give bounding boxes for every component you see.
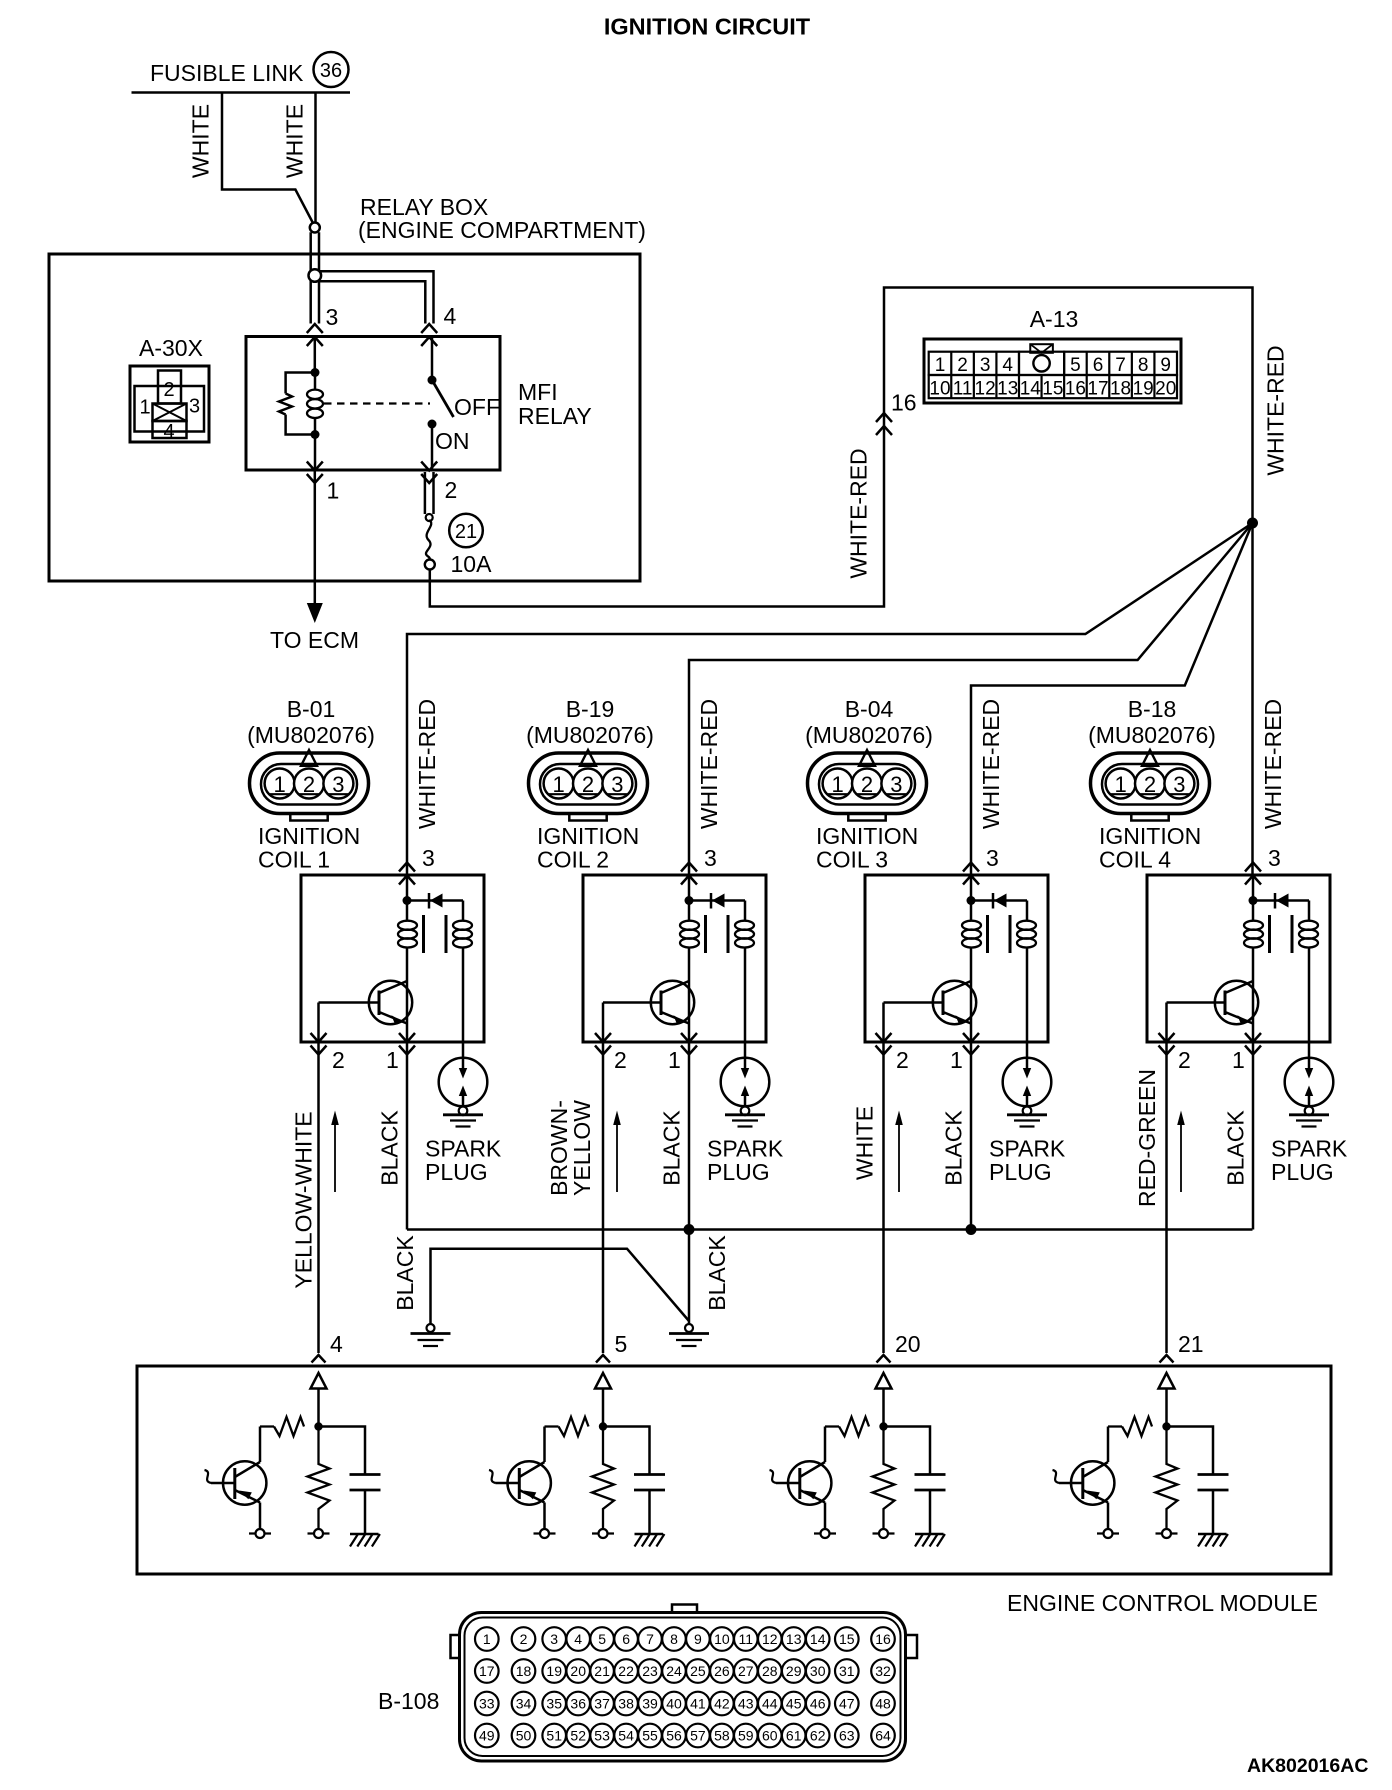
WHITE-RED distribution junction xyxy=(1247,518,1258,529)
connector B-108 pins 1-64 xyxy=(475,1627,895,1747)
ECM pin arrow coil 1 xyxy=(312,1355,326,1363)
coil 1 primary junction xyxy=(403,896,412,905)
ECM driver 4 capacitor ground wire xyxy=(1212,1490,1215,1534)
svg-text:16: 16 xyxy=(891,390,917,416)
ECM pin arrow coil 3 xyxy=(877,1355,891,1363)
ECM driver 2 emitter wire xyxy=(543,1503,546,1530)
connector A-13 outline xyxy=(924,339,1181,403)
svg-text:2: 2 xyxy=(582,772,594,797)
svg-text:50: 50 xyxy=(516,1728,532,1744)
svg-text:9: 9 xyxy=(1160,355,1171,376)
svg-text:WHITE-RED: WHITE-RED xyxy=(1260,699,1286,829)
svg-text:11: 11 xyxy=(953,378,973,399)
relay internal resistor xyxy=(279,394,292,415)
ignition coil 2 primary winding xyxy=(680,905,699,981)
svg-text:(MU802076): (MU802076) xyxy=(805,722,933,748)
svg-text:38: 38 xyxy=(618,1696,634,1712)
svg-text:1: 1 xyxy=(935,355,946,376)
svg-text:8: 8 xyxy=(1138,355,1149,376)
connector B-19 bottom tab xyxy=(569,814,606,821)
connector B-01 outer shell xyxy=(250,753,369,814)
svg-text:58: 58 xyxy=(714,1728,730,1744)
svg-text:2: 2 xyxy=(520,1631,528,1647)
wire BLACK coil 3 emitter xyxy=(970,1042,973,1230)
ignition coil 4 core xyxy=(1270,915,1293,953)
ECM driver 3 capacitor branch wire xyxy=(884,1427,931,1475)
coil 2 power transistor xyxy=(603,981,694,1024)
coil 4 pin 1 arrows xyxy=(1245,1033,1261,1055)
svg-text:27: 27 xyxy=(738,1663,754,1679)
connector B-108 outer shell xyxy=(460,1613,906,1762)
connector A-13 top row pin labels xyxy=(935,355,1171,376)
spark plug 4 xyxy=(1285,1058,1334,1107)
connector B-19 pins 1 2 3 xyxy=(544,769,633,799)
coil 4 primary junction xyxy=(1249,896,1258,905)
ECM pin arrow coil 2 xyxy=(596,1355,610,1363)
svg-text:56: 56 xyxy=(666,1728,682,1744)
svg-text:1: 1 xyxy=(950,1047,963,1073)
ignition coil 2 secondary winding xyxy=(735,901,754,1059)
wire WHITE left xyxy=(222,93,314,225)
svg-text:36: 36 xyxy=(320,60,342,82)
ignition coil 3 name xyxy=(816,823,918,873)
svg-text:10A: 10A xyxy=(451,551,493,577)
svg-text:4: 4 xyxy=(1002,355,1013,376)
svg-text:B-18: B-18 xyxy=(1128,696,1177,722)
svg-text:60: 60 xyxy=(762,1728,778,1744)
svg-text:SPARK: SPARK xyxy=(1271,1136,1348,1162)
svg-text:B-108: B-108 xyxy=(378,1688,439,1714)
ignition coil 2 outline xyxy=(583,875,766,1042)
svg-text:2: 2 xyxy=(303,772,315,797)
svg-text:59: 59 xyxy=(738,1728,754,1744)
coil 2 pin 3 arrows xyxy=(681,863,697,885)
wire WHITE-RED to ignition coil 2 xyxy=(689,523,1253,876)
fuse top terminal circle xyxy=(426,514,433,521)
svg-text:17: 17 xyxy=(1087,378,1108,399)
connector B-19 outer shell xyxy=(529,753,648,814)
svg-text:21: 21 xyxy=(594,1663,610,1679)
ECM driver 3 emitter terminal xyxy=(814,1529,836,1538)
fuse bottom terminal circle xyxy=(425,560,435,570)
ECM driver 4 chassis ground xyxy=(1198,1534,1228,1547)
coil 1 collector-emitter wire xyxy=(406,981,409,1042)
svg-text:45: 45 xyxy=(786,1696,802,1712)
coil 4 signal flow arrow xyxy=(1177,1111,1185,1193)
svg-text:IGNITION: IGNITION xyxy=(816,823,918,849)
engine control module outline xyxy=(137,1366,1331,1574)
ignition coil 2 core xyxy=(706,915,729,953)
svg-text:21: 21 xyxy=(1178,1331,1204,1357)
wire coil 4 pin 2 to ECM xyxy=(1165,1042,1168,1353)
relay pin 2 connector arrows xyxy=(421,462,437,484)
svg-text:3: 3 xyxy=(1268,845,1281,871)
relay pin 4 connector arrows xyxy=(421,324,437,346)
coil 2 pin 2 arrows xyxy=(595,1033,611,1055)
ignition coil 1 core xyxy=(424,915,447,953)
svg-text:9: 9 xyxy=(694,1631,702,1647)
connector B-04 pins 1 2 3 xyxy=(823,769,912,799)
svg-text:10: 10 xyxy=(714,1631,730,1647)
connector double-line branch to relay pin 4 xyxy=(319,271,434,323)
ECM driver 1 input buffer triangle xyxy=(311,1373,327,1389)
svg-text:IGNITION CIRCUIT: IGNITION CIRCUIT xyxy=(604,14,811,40)
coil 1 signal flow arrow xyxy=(331,1111,339,1193)
ECM driver 1 pulldown resistor xyxy=(308,1427,330,1530)
svg-text:7: 7 xyxy=(1115,355,1126,376)
ECM driver 1 collector wire xyxy=(259,1427,262,1463)
ECM driver 3 chassis ground xyxy=(915,1534,945,1547)
svg-text:2: 2 xyxy=(957,355,968,376)
ground left xyxy=(411,1324,451,1346)
ECM driver 2 capacitor ground wire xyxy=(648,1490,651,1534)
ECM driver 3 input wire xyxy=(882,1389,885,1427)
svg-text:1: 1 xyxy=(273,772,285,797)
relay switch pivot xyxy=(428,376,437,385)
svg-text:WHITE-RED: WHITE-RED xyxy=(696,699,722,829)
svg-text:WHITE: WHITE xyxy=(188,104,214,178)
coil 2 diode feed wire xyxy=(689,899,745,902)
coil 4 power transistor xyxy=(1167,981,1259,1024)
svg-text:3: 3 xyxy=(550,1631,558,1647)
svg-text:4: 4 xyxy=(444,303,457,329)
coil 1 pin 1 arrows xyxy=(399,1033,415,1055)
svg-text:IGNITION: IGNITION xyxy=(537,823,639,849)
connector B-19 keying triangle xyxy=(580,750,596,766)
connector A-30X outline xyxy=(130,366,209,442)
ECM driver 4 collector resistor xyxy=(1122,1417,1152,1436)
svg-text:3: 3 xyxy=(611,772,623,797)
svg-text:TO ECM: TO ECM xyxy=(270,627,359,653)
ECM driver 2 capacitor branch wire xyxy=(603,1427,650,1475)
svg-text:BLACK: BLACK xyxy=(704,1235,730,1311)
connector B-18 outer shell xyxy=(1091,753,1210,814)
svg-text:16: 16 xyxy=(1065,378,1086,399)
connector B-18 inner shell xyxy=(1102,764,1198,805)
ECM driver 2 pulldown resistor xyxy=(592,1427,614,1530)
svg-text:20: 20 xyxy=(1155,378,1176,399)
svg-text:ON: ON xyxy=(435,428,470,454)
svg-text:28: 28 xyxy=(762,1663,778,1679)
svg-text:PLUG: PLUG xyxy=(1271,1159,1334,1185)
ignition coil 4 secondary winding xyxy=(1299,901,1318,1059)
svg-text:55: 55 xyxy=(642,1728,658,1744)
svg-text:2: 2 xyxy=(163,379,174,401)
wire switch contact to pin 2 xyxy=(431,424,434,470)
spark plug 2 xyxy=(721,1058,770,1107)
svg-text:14: 14 xyxy=(1020,378,1042,399)
spark plug 1 xyxy=(439,1058,488,1107)
ECM driver 4 resistor terminal xyxy=(1156,1529,1178,1538)
ECM driver 2 node junction xyxy=(599,1422,607,1430)
coil 1 pin 2 arrows xyxy=(311,1033,327,1055)
ECM driver 3 transistor xyxy=(770,1461,832,1504)
svg-text:12: 12 xyxy=(762,1631,778,1647)
ECM driver 4 input buffer triangle xyxy=(1159,1373,1175,1389)
svg-text:18: 18 xyxy=(516,1663,532,1679)
svg-text:RELAY: RELAY xyxy=(518,403,592,429)
ignition coil 1 name xyxy=(258,823,360,873)
connector B-01 pins 1 2 3 xyxy=(265,769,354,799)
svg-text:WHITE-RED: WHITE-RED xyxy=(846,448,872,578)
connector double-line to relay pin 3 xyxy=(311,232,319,323)
connector A-13 bottom row cells xyxy=(929,375,1177,398)
svg-text:BLACK: BLACK xyxy=(941,1110,967,1186)
relay box label xyxy=(358,194,646,243)
svg-text:46: 46 xyxy=(810,1696,826,1712)
svg-text:19: 19 xyxy=(1133,378,1154,399)
ECM driver 3 node junction xyxy=(879,1422,887,1430)
svg-text:15: 15 xyxy=(839,1631,855,1647)
bus junction coil 3 xyxy=(966,1224,977,1235)
svg-text:AK802016AC: AK802016AC xyxy=(1247,1755,1368,1777)
wire WHITE-RED fuse to A-13 riser xyxy=(430,288,1253,877)
svg-text:37: 37 xyxy=(594,1696,610,1712)
svg-text:47: 47 xyxy=(839,1696,855,1712)
coil 3 primary junction xyxy=(967,896,976,905)
svg-text:3: 3 xyxy=(986,845,999,871)
coil 3 pin3 internal wire xyxy=(970,876,973,905)
connector A-13 top row cells xyxy=(929,352,1177,375)
fuse holder double-line xyxy=(425,472,434,514)
spark plug 3 xyxy=(1003,1058,1052,1107)
branch junction circle xyxy=(309,269,322,282)
svg-text:COIL 3: COIL 3 xyxy=(816,847,888,873)
coil 4 pin 3 arrows xyxy=(1245,863,1261,885)
svg-text:1: 1 xyxy=(1232,1047,1245,1073)
svg-text:4: 4 xyxy=(163,421,174,443)
connector B-04 keying triangle xyxy=(859,750,875,766)
ECM driver 3 capacitor ground wire xyxy=(929,1490,932,1534)
svg-text:COIL 4: COIL 4 xyxy=(1099,847,1171,873)
ECM driver 1 emitter terminal xyxy=(249,1529,271,1538)
svg-text:IGNITION: IGNITION xyxy=(258,823,360,849)
svg-text:3: 3 xyxy=(980,355,991,376)
coil 3 power transistor xyxy=(884,981,977,1024)
svg-text:8: 8 xyxy=(670,1631,678,1647)
ECM driver 4 node junction xyxy=(1162,1422,1170,1430)
connector A-13 keying circle xyxy=(1033,355,1049,371)
svg-text:1: 1 xyxy=(668,1047,681,1073)
spark plug 1 ground xyxy=(443,1115,483,1127)
wire relay coil to pin 1 xyxy=(314,435,317,471)
svg-text:14: 14 xyxy=(810,1631,826,1647)
coil 3 signal flow arrow xyxy=(895,1111,903,1193)
connector junction circle xyxy=(310,223,320,233)
ECM driver 4 resistor lead xyxy=(1108,1425,1122,1427)
svg-text:64: 64 xyxy=(875,1728,891,1744)
ECM driver 3 collector resistor xyxy=(839,1417,869,1436)
ECM driver 2 collector wire xyxy=(543,1427,546,1463)
svg-text:32: 32 xyxy=(875,1663,891,1679)
coil 4 collector-emitter wire xyxy=(1252,981,1255,1042)
coil 1 diode feed wire xyxy=(407,899,463,902)
svg-text:10: 10 xyxy=(929,378,950,399)
ignition coil 3 outline xyxy=(865,875,1048,1042)
spark plug 4 ground xyxy=(1289,1115,1329,1127)
coil 3 pin 3 arrows xyxy=(963,863,979,885)
relay actuation dashed link xyxy=(324,402,430,404)
svg-text:WHITE-RED: WHITE-RED xyxy=(1263,345,1289,475)
svg-text:25: 25 xyxy=(690,1663,706,1679)
relay coil winding xyxy=(307,373,323,435)
svg-text:5: 5 xyxy=(598,1631,606,1647)
svg-text:49: 49 xyxy=(479,1728,495,1744)
coil 3 collector-emitter wire xyxy=(970,981,973,1042)
ECM driver 4 pulldown resistor xyxy=(1156,1427,1178,1530)
ignition coil 3 core xyxy=(988,915,1011,953)
svg-text:BLACK: BLACK xyxy=(392,1235,418,1311)
svg-text:1: 1 xyxy=(831,772,843,797)
svg-text:COIL 2: COIL 2 xyxy=(537,847,609,873)
ECM driver 1 capacitor xyxy=(350,1475,381,1491)
svg-text:RED-GREEN: RED-GREEN xyxy=(1134,1069,1160,1207)
A-13 pin 16 arrows xyxy=(876,413,892,435)
relay pin 1 connector arrows xyxy=(307,462,323,484)
svg-text:2: 2 xyxy=(614,1047,627,1073)
spark plug 4 terminal circle xyxy=(1305,1107,1314,1116)
coil 2 pin3 internal wire xyxy=(688,876,691,905)
coil 2 base wire to pin 2 xyxy=(602,1003,605,1043)
connector B-18 keying triangle xyxy=(1142,750,1158,766)
spark plug 1 terminal circle xyxy=(459,1107,468,1116)
ignition coil 1 secondary winding xyxy=(453,901,472,1059)
svg-text:3: 3 xyxy=(326,304,339,330)
svg-text:52: 52 xyxy=(570,1728,586,1744)
svg-text:ENGINE CONTROL MODULE: ENGINE CONTROL MODULE xyxy=(1007,1590,1318,1616)
svg-text:A-13: A-13 xyxy=(1030,306,1079,332)
svg-text:2: 2 xyxy=(332,1047,345,1073)
wire BLACK ground link xyxy=(431,1249,690,1324)
svg-text:12: 12 xyxy=(975,378,996,399)
svg-text:13: 13 xyxy=(997,378,1018,399)
ECM driver 4 emitter wire xyxy=(1107,1503,1110,1530)
relay coil resistor bracket top xyxy=(286,373,315,394)
svg-text:4: 4 xyxy=(574,1631,582,1647)
coil 4 base wire to pin 2 xyxy=(1165,1003,1168,1043)
wire relay pin 1 TO ECM xyxy=(314,471,317,606)
svg-text:5: 5 xyxy=(615,1331,628,1357)
svg-text:3: 3 xyxy=(704,845,717,871)
relay coil bottom junction xyxy=(311,430,320,439)
svg-text:B-01: B-01 xyxy=(287,696,336,722)
svg-text:7: 7 xyxy=(646,1631,654,1647)
connector A-13 bottom row pin labels xyxy=(929,378,1176,399)
ground right of coil 2 xyxy=(669,1324,709,1346)
svg-text:BLACK: BLACK xyxy=(377,1110,403,1186)
svg-text:61: 61 xyxy=(786,1728,802,1744)
relay coil top junction xyxy=(311,368,320,377)
coil 3 pin 2 arrows xyxy=(876,1033,892,1055)
svg-text:3: 3 xyxy=(1173,772,1185,797)
svg-text:13: 13 xyxy=(786,1631,802,1647)
svg-text:3: 3 xyxy=(890,772,902,797)
ignition coil 4 outline xyxy=(1147,875,1330,1042)
svg-text:54: 54 xyxy=(618,1728,634,1744)
svg-text:40: 40 xyxy=(666,1696,682,1712)
svg-text:1: 1 xyxy=(327,478,340,504)
coil 4 pin 2 arrows xyxy=(1159,1033,1175,1055)
svg-text:5: 5 xyxy=(1070,355,1081,376)
relay box (engine compartment) outline xyxy=(49,254,640,581)
ECM driver 2 capacitor xyxy=(634,1475,665,1491)
diode coil 2 xyxy=(711,893,725,909)
connector B-19 inner shell xyxy=(540,764,636,805)
ECM driver 2 collector resistor xyxy=(559,1417,589,1436)
ECM driver 4 capacitor xyxy=(1198,1475,1229,1491)
svg-text:30: 30 xyxy=(810,1663,826,1679)
relay switch ON contact xyxy=(428,420,437,429)
connector B-04 inner shell xyxy=(819,764,915,805)
svg-text:IGNITION: IGNITION xyxy=(1099,823,1201,849)
ECM driver 3 input buffer triangle xyxy=(876,1373,892,1389)
svg-text:YELLOW: YELLOW xyxy=(569,1100,595,1196)
coil 2 primary junction xyxy=(685,896,694,905)
svg-text:39: 39 xyxy=(642,1696,658,1712)
svg-text:24: 24 xyxy=(666,1663,682,1679)
connector B-01 keying triangle xyxy=(301,750,317,766)
svg-text:51: 51 xyxy=(546,1728,562,1744)
fuse number 21 xyxy=(449,514,483,548)
svg-text:43: 43 xyxy=(738,1696,754,1712)
svg-text:57: 57 xyxy=(690,1728,706,1744)
svg-text:2: 2 xyxy=(1178,1047,1191,1073)
svg-text:(ENGINE COMPARTMENT): (ENGINE COMPARTMENT) xyxy=(358,217,646,243)
fusible link bus bar xyxy=(132,91,351,94)
diode coil 4 xyxy=(1275,893,1289,909)
svg-text:16: 16 xyxy=(875,1631,891,1647)
connector B-18 bottom tab xyxy=(1131,814,1168,821)
connector A-30X pin 2 cavity xyxy=(158,371,181,404)
wire relay pin4 to switch xyxy=(431,338,434,380)
TO ECM arrowhead xyxy=(307,603,323,623)
coil 1 power transistor xyxy=(319,981,413,1024)
coil 1 pin3 internal wire xyxy=(406,876,409,905)
spark plug 2 ground xyxy=(725,1115,765,1127)
ECM driver 2 emitter terminal xyxy=(534,1529,556,1538)
ECM driver 2 resistor terminal xyxy=(592,1529,614,1538)
wire coil 3 pin 2 to ECM xyxy=(882,1042,885,1353)
svg-text:1: 1 xyxy=(552,772,564,797)
diode coil 3 xyxy=(993,893,1007,909)
svg-text:1: 1 xyxy=(483,1631,491,1647)
ECM driver 3 emitter wire xyxy=(824,1503,827,1530)
ECM pin arrow coil 4 xyxy=(1160,1355,1174,1363)
svg-text:18: 18 xyxy=(1110,378,1131,399)
svg-text:BLACK: BLACK xyxy=(659,1110,685,1186)
wire BLACK coil 2 to ground xyxy=(688,1230,691,1325)
svg-text:A-30X: A-30X xyxy=(139,335,203,361)
svg-text:44: 44 xyxy=(762,1696,778,1712)
ECM driver 1 capacitor ground wire xyxy=(364,1490,367,1534)
svg-text:BLACK: BLACK xyxy=(1223,1110,1249,1186)
svg-text:(MU802076): (MU802076) xyxy=(247,722,375,748)
svg-text:20: 20 xyxy=(895,1331,921,1357)
diode coil 1 xyxy=(429,893,443,909)
ignition coil 3 secondary winding xyxy=(1017,901,1036,1059)
connector A-30X inner body xyxy=(135,386,205,432)
svg-text:3: 3 xyxy=(422,845,435,871)
svg-text:48: 48 xyxy=(875,1696,891,1712)
ECM driver 3 collector wire xyxy=(824,1427,827,1463)
ECM driver 4 emitter terminal xyxy=(1097,1529,1119,1538)
coil 1 pin 3 arrows xyxy=(399,863,415,885)
ECM driver 2 input buffer triangle xyxy=(595,1373,611,1389)
ECM driver 1 chassis ground xyxy=(350,1534,380,1547)
svg-text:MFI: MFI xyxy=(518,379,558,405)
svg-text:11: 11 xyxy=(739,1631,754,1647)
relay coil resistor bracket bottom xyxy=(286,415,315,435)
